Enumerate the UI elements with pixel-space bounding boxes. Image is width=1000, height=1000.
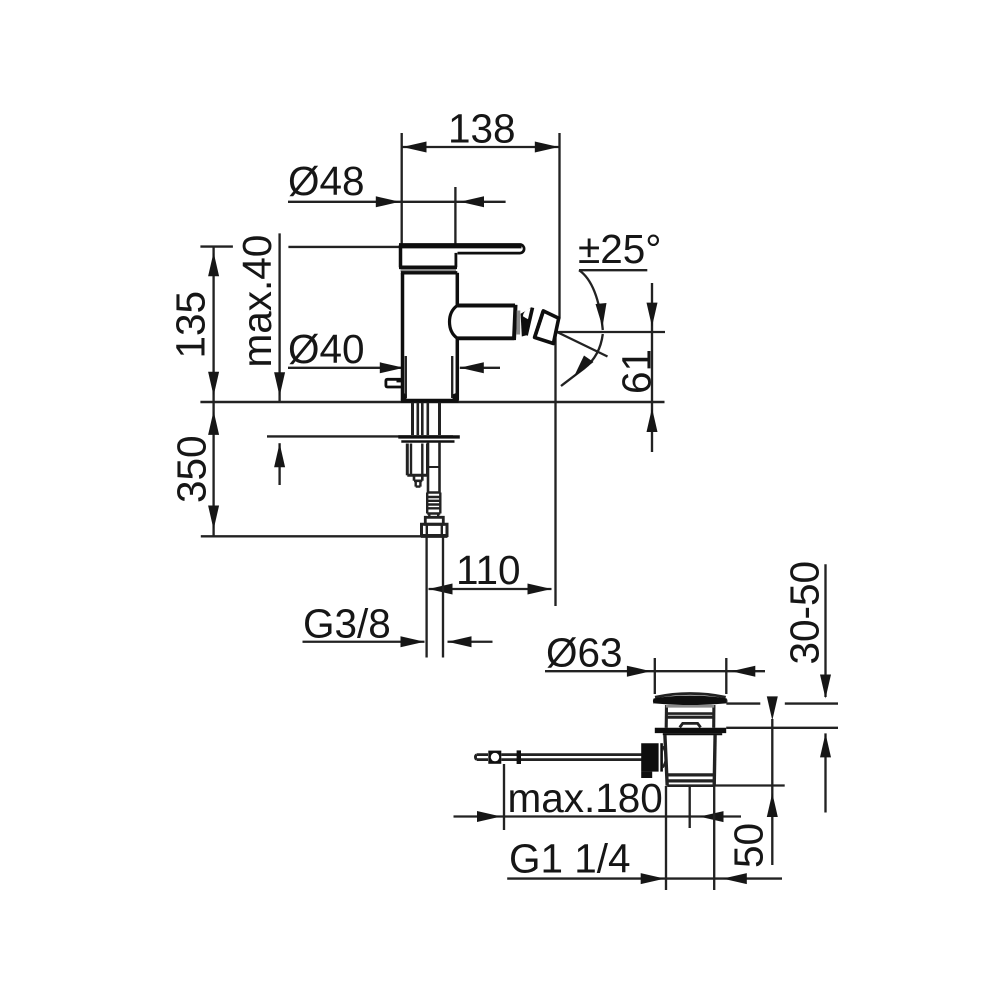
swing arc lower arrowhead xyxy=(574,356,594,378)
rod housing end bar xyxy=(660,743,663,771)
spout end gray seam xyxy=(516,311,520,335)
extension tick Ø63 right xyxy=(725,658,727,694)
dimension 61 bottom arrow xyxy=(647,408,658,432)
dimension 350 bottom arrow xyxy=(208,506,219,530)
dimension max.40 lower arrow xyxy=(274,443,285,467)
drain body groove line 2 xyxy=(667,779,714,782)
hose tube left line lower xyxy=(427,442,430,493)
drain cap rim left tip xyxy=(653,698,654,704)
dimension Ø63 right arrow xyxy=(731,666,755,677)
svg-text:max.40: max.40 xyxy=(234,235,280,368)
drain plug gray seam xyxy=(666,705,714,708)
dimension Ø40 line right xyxy=(460,367,500,369)
spout end face xyxy=(514,305,516,340)
hose corrugation side walls xyxy=(427,493,440,514)
hose tube left line upper xyxy=(426,403,429,436)
dimension 110 left arrow xyxy=(429,584,453,595)
extension line left of 138 and Ø48 xyxy=(401,133,403,246)
cartridge housing inner right xyxy=(421,444,423,476)
dimension Ø40 line left xyxy=(288,367,404,369)
shank pull rod right line xyxy=(421,403,424,436)
cartridge pin xyxy=(416,481,421,487)
hose nut bottom thick xyxy=(421,535,448,538)
drain cap top arc xyxy=(655,694,726,698)
svg-text:30-50: 30-50 xyxy=(782,561,828,665)
pop-up rod upper line xyxy=(501,753,641,756)
spout top edge xyxy=(457,304,515,308)
rod housing block xyxy=(641,743,658,771)
dimension 110 right arrow xyxy=(528,584,552,595)
hose corrugation lines xyxy=(427,493,440,514)
pop-up rod lower line xyxy=(501,758,641,761)
dimension 138 line xyxy=(403,146,559,148)
extension line right of 138 xyxy=(558,133,560,319)
cartridge housing inner left xyxy=(410,444,412,476)
dimension 61 vertical line xyxy=(651,283,653,452)
dimension G3/8 left arrow xyxy=(401,636,425,647)
base left dark wedge xyxy=(403,393,407,402)
drain body bottom edge xyxy=(667,784,714,787)
drain plug neck left wall xyxy=(665,705,668,728)
drain plug bump xyxy=(680,723,701,727)
svg-text:135: 135 xyxy=(168,291,214,359)
extension line 110 right / aerator tip xyxy=(554,331,556,606)
svg-text:110: 110 xyxy=(456,547,521,593)
extension line G1 1/4 left xyxy=(665,786,667,890)
pop-up rod collar xyxy=(517,750,521,764)
extension line rod end (max.180 left) xyxy=(503,764,505,830)
body top edge xyxy=(401,271,457,274)
dimension 135/350 shared vertical line xyxy=(212,247,214,537)
cartridge housing right wall xyxy=(426,444,429,476)
svg-text:G3/8: G3/8 xyxy=(303,601,391,647)
side fitting inner nub xyxy=(397,380,402,382)
swing arc upper arrowhead xyxy=(596,303,607,327)
svg-text:Ø63: Ø63 xyxy=(546,630,623,676)
dimension 61 top arrow xyxy=(647,303,658,327)
swing arc upper leader xyxy=(579,270,603,330)
dimension 350 top arrow xyxy=(208,411,219,435)
hose neck xyxy=(429,514,438,518)
cartridge housing left wall xyxy=(406,444,409,476)
dimension Ø63 left arrow xyxy=(627,666,651,677)
extension line G1 1/4 right xyxy=(713,786,715,890)
dimension Ø48 left arrow xyxy=(376,196,400,207)
cartridge housing bottom xyxy=(407,474,427,477)
hose tube right line upper xyxy=(438,403,441,436)
cap right edge xyxy=(454,253,457,267)
dimension Ø48 right arrow xyxy=(460,196,484,207)
dimension Ø40 right arrow xyxy=(460,362,484,373)
extension line drain centre xyxy=(689,786,691,828)
handle lever top thick edge xyxy=(399,244,522,248)
shank pull rod left line xyxy=(416,403,419,436)
dimension max.40 vertical line upper xyxy=(278,233,280,402)
dimension Ø48 line xyxy=(288,201,506,203)
reference line max.40 bottom (washer level) xyxy=(267,435,453,437)
extension line hose left xyxy=(425,537,427,658)
dimension Ø63 line xyxy=(545,670,765,672)
drain flange xyxy=(655,728,726,733)
handle lever xyxy=(399,245,524,254)
drain cap rim right tip xyxy=(726,698,727,704)
extension tick Ø40 right xyxy=(451,356,453,398)
svg-text:Ø48: Ø48 xyxy=(288,158,365,204)
body left edge xyxy=(401,273,405,401)
shank left wall xyxy=(411,403,414,436)
dimension 138 left arrow xyxy=(403,142,427,153)
drain plug thread line 1 xyxy=(665,712,714,715)
drain cap rim band xyxy=(654,696,726,706)
dimension G3/8 line right xyxy=(448,641,493,643)
extension line hose right xyxy=(442,537,444,658)
extension tick Ø40 left xyxy=(405,356,407,398)
aerator centre reference line xyxy=(558,331,666,333)
dimension 138 right arrow xyxy=(535,142,559,153)
svg-text:138: 138 xyxy=(448,105,516,151)
swing arc lower xyxy=(561,334,603,386)
svg-text:G1 1/4: G1 1/4 xyxy=(509,836,631,882)
dimension 50 lower arrow xyxy=(767,793,778,817)
side fitting box on body left xyxy=(386,379,403,387)
cartridge stub xyxy=(414,475,422,481)
dimension G1 1/4 left arrow xyxy=(641,873,665,884)
spout left bulge xyxy=(450,306,458,339)
faucet body outline xyxy=(386,245,559,402)
hose tube right line lower xyxy=(438,442,441,493)
extension tick Ø63 left xyxy=(654,658,656,694)
cap seam gray line xyxy=(401,269,457,272)
dimension 30-50 bottom arrow xyxy=(820,733,831,757)
aerator dark wedge xyxy=(521,308,531,337)
svg-text:±25°: ±25° xyxy=(578,226,661,272)
deck reference line xyxy=(200,401,664,404)
rod housing lower step xyxy=(641,772,652,778)
dimension 30-50 top arrow xyxy=(820,675,831,699)
reference line cap underside right xyxy=(726,702,838,704)
dimension G1 1/4 line xyxy=(507,877,782,879)
drain flange lower lip xyxy=(663,733,722,735)
dimension G1 1/4 right arrow xyxy=(723,873,747,884)
mounting washer upper plate xyxy=(398,435,460,438)
svg-text:350: 350 xyxy=(169,435,215,503)
mounting washer lower plate xyxy=(401,440,454,443)
hose segment tick xyxy=(428,466,440,468)
dimension 30-50 vertical line xyxy=(824,564,826,812)
aerator ring right line xyxy=(535,311,544,338)
dimension 50 upper arrow xyxy=(767,696,778,720)
hose end nut xyxy=(422,524,448,535)
extension tick right of Ø48 xyxy=(454,187,456,246)
dimension 50 vertical line xyxy=(771,719,773,865)
25° slanted reference line xyxy=(557,332,608,357)
body right edge lower xyxy=(456,338,460,400)
drain body left wall xyxy=(665,735,667,786)
aerator top white pocket xyxy=(523,308,531,319)
dimension 135 bottom arrow xyxy=(208,372,219,396)
dimension max.180 line xyxy=(454,815,742,817)
aerator cup outline xyxy=(535,311,559,344)
svg-text:50: 50 xyxy=(726,823,772,868)
dimension Ø40 left arrow xyxy=(380,362,404,373)
pop-up rod clevis hole xyxy=(491,753,499,761)
reference line bottom of 350 (hose end level) xyxy=(201,535,446,537)
drain body right wall xyxy=(713,735,717,786)
dimension max.180 right arrow xyxy=(700,811,724,822)
pop-up rod tail pin xyxy=(475,755,488,760)
hose end fitting xyxy=(425,517,443,524)
dimension G3/8 line left xyxy=(303,641,425,643)
dimension G3/8 right arrow xyxy=(448,636,472,647)
svg-text:max.180: max.180 xyxy=(508,775,663,821)
reference line pipe bottom right xyxy=(714,784,785,786)
rod housing ball arc xyxy=(663,746,667,767)
reference line flange top right xyxy=(726,727,838,729)
cap bottom edge xyxy=(399,265,457,269)
reference line top of 135 (handle top level) xyxy=(200,245,401,248)
base right dark wedge xyxy=(453,393,458,402)
svg-text:Ø40: Ø40 xyxy=(288,326,365,372)
cap left edge xyxy=(399,245,403,267)
dimension max.40 vertical line lower xyxy=(278,443,280,485)
aerator ring left line xyxy=(526,308,532,336)
body bottom / base xyxy=(401,399,459,403)
drain plug neck right wall xyxy=(712,705,715,728)
drain plug thread line 2 xyxy=(665,716,715,719)
dimension max.180 left arrow xyxy=(477,811,501,822)
drain body groove line 1 xyxy=(666,773,714,776)
dimension max.40 upper arrow xyxy=(274,372,285,396)
dimension 135 top arrow xyxy=(208,252,219,276)
leader underline of ±25° xyxy=(579,269,647,271)
body right edge upper xyxy=(456,273,460,306)
pop-up rod clevis block xyxy=(488,751,501,764)
hose nut facets xyxy=(427,524,442,535)
dimension 110 line xyxy=(429,588,552,590)
spout bottom edge xyxy=(457,336,514,340)
